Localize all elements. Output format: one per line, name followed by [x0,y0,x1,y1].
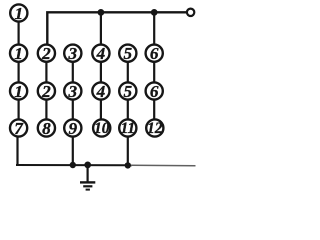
svg-text:3: 3 [68,82,78,101]
junction bottom bus / ground [84,162,91,169]
wire column 5 vertical [127,44,129,165]
svg-text:1: 1 [15,4,24,23]
svg-text:4: 4 [96,82,106,101]
svg-text:11: 11 [120,120,135,137]
svg-text:1: 1 [14,44,23,63]
wire bottom bus [16,164,196,167]
wire column 6 vertical [153,12,155,137]
lamp 2 (row C) [38,82,55,101]
svg-text:6: 6 [150,44,159,63]
junction top bus / column 6 [151,9,158,16]
terminal (open circle, top right) [187,9,194,16]
lamp 1 (row B) [10,44,27,63]
svg-text:4: 4 [96,44,106,63]
svg-text:3: 3 [68,44,78,63]
svg-text:5: 5 [124,82,133,101]
lamp 12 (row D) [146,119,163,137]
lamp 1 (row A, top left) [10,4,27,23]
junction bottom bus / column 3 [70,162,76,168]
svg-text:8: 8 [42,119,51,138]
junction top bus / column 4 [98,9,105,16]
lamp 2 (row B) [38,44,55,63]
lamp 4 (row B) [92,44,109,63]
lamp 5 (row C) [119,82,136,101]
wire top bus [47,12,186,44]
lamp 3 (row B) [64,44,81,63]
wire column 4 vertical [100,12,102,137]
lamp 1 (row C) [10,82,27,101]
svg-text:2: 2 [41,44,51,63]
svg-text:6: 6 [150,82,159,101]
lamp 9 (row D) [64,119,81,138]
svg-text:2: 2 [41,82,51,101]
wire column 2 vertical [45,44,47,137]
lamp 6 (row B) [146,44,163,63]
lamp 8 (row D) [38,119,55,138]
svg-text:12: 12 [147,120,163,137]
lamp 3 (row C) [64,82,81,101]
lamp 6 (row C) [146,82,163,101]
lamp 7 (row D) [10,119,27,138]
svg-text:5: 5 [124,44,133,63]
junction bottom bus / column 5 [125,162,131,168]
wire column 3 vertical [72,44,74,165]
svg-text:7: 7 [14,119,24,138]
svg-text:10: 10 [94,120,110,137]
svg-text:9: 9 [69,119,78,138]
lamp 4 (row C) [92,82,109,101]
ground [80,165,95,190]
wire column 1 vertical [18,13,19,165]
lamp 11 (row D) [119,119,136,137]
lamp 5 (row B) [119,44,136,63]
lamp 10 (row D) [93,119,110,137]
svg-text:1: 1 [14,82,23,101]
